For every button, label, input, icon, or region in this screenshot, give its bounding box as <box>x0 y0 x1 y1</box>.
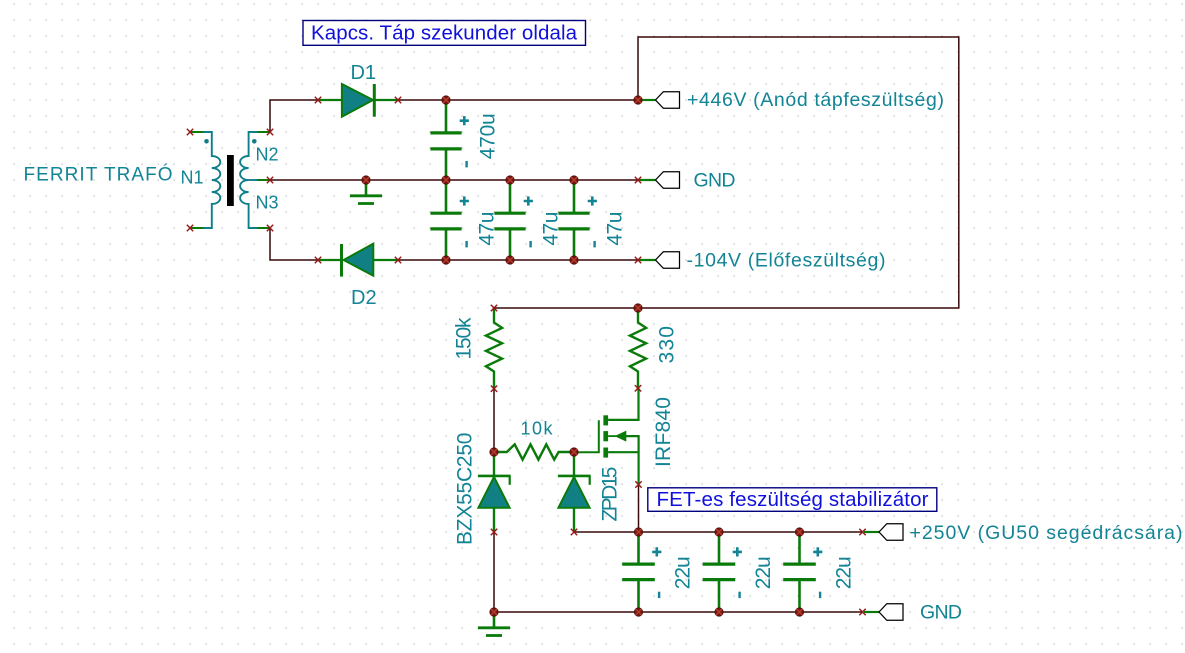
svg-text:+446V (Anód tápfeszültség): +446V (Anód tápfeszültség) <box>687 89 944 111</box>
svg-text:47u: 47u <box>540 212 563 246</box>
svg-text:FERRIT TRAFÓ: FERRIT TRAFÓ <box>24 164 173 186</box>
junction 366,180 <box>362 176 370 184</box>
zener diode Z1 BZX55C250 <box>478 452 511 532</box>
svg-text:N1: N1 <box>181 168 204 188</box>
svg-text:N3: N3 <box>256 193 279 213</box>
pin mark 638.5,484.5 <box>635 481 641 487</box>
wire bottom GND rail <box>494 611 863 613</box>
wire N2 top to D1 anode <box>270 100 318 132</box>
pin mark 190,132 <box>187 129 193 135</box>
wire N3 bottom to D2 cathode <box>270 228 318 260</box>
pin mark 638,388.3 <box>635 385 641 391</box>
svg-text:FET-es feszültség stabilizátor: FET-es feszültség stabilizátor <box>657 488 929 511</box>
stub -104V terminal <box>639 259 656 261</box>
junction 638,308 <box>634 304 642 312</box>
pin mark 270,228 <box>267 225 273 231</box>
pin mark 574,532 <box>571 529 577 535</box>
capacitor C1 470u <box>430 100 469 180</box>
junction 494,452 <box>490 448 498 456</box>
svg-text:GND: GND <box>694 170 736 192</box>
diode D2 <box>318 244 398 277</box>
ground GND rail <box>350 184 382 204</box>
svg-text:47u: 47u <box>476 212 499 246</box>
svg-text:+250V (GU50 segédrácsára): +250V (GU50 segédrácsára) <box>910 522 1183 544</box>
svg-text:Kapcs. Táp szekunder oldala: Kapcs. Táp szekunder oldala <box>311 21 578 44</box>
junction 574,180 <box>570 176 578 184</box>
transformer FERRIT TRAFO <box>191 132 270 228</box>
wire GND rail top <box>270 179 638 181</box>
pin mark 190,228 <box>187 225 193 231</box>
terminal GND <box>656 172 680 189</box>
junction 638,100 <box>634 96 642 104</box>
stub +250V terminal <box>864 531 879 533</box>
resistor R3 10k <box>494 444 574 459</box>
junction 510,180 <box>506 176 514 184</box>
resistor R2 330 <box>630 308 646 388</box>
svg-text:22u: 22u <box>672 556 695 589</box>
svg-text:IRF840: IRF840 <box>652 397 675 467</box>
junction 446,180 <box>442 176 450 184</box>
pin mark 638,260 <box>635 257 641 263</box>
junction 799.5,532 <box>795 528 803 536</box>
wire D2 anode to -104V rail <box>398 259 638 261</box>
pin mark 494,388.7 <box>491 386 497 392</box>
ground bottom <box>478 616 510 636</box>
wire +446V node to regulator rail <box>494 37 959 308</box>
pin mark 862.5,532 <box>859 529 865 535</box>
svg-text:GND: GND <box>920 602 962 624</box>
capacitor C5 22u <box>622 532 661 612</box>
junction 574,260 <box>570 256 578 264</box>
title box 1 <box>303 21 586 46</box>
capacitor C6 22u <box>703 532 742 612</box>
svg-text:D2: D2 <box>351 287 377 309</box>
stub GND bottom terminal <box>864 611 879 613</box>
capacitor C3 47u <box>494 180 533 260</box>
svg-text:47u: 47u <box>604 212 627 246</box>
diode D1 <box>318 84 398 117</box>
capacitor C7 22u <box>783 532 822 612</box>
wire BZX anode to bottom GND rail <box>493 532 495 612</box>
stub +446V terminal <box>641 99 656 101</box>
terminal GND bottom <box>879 604 903 621</box>
junction 494,612 <box>490 608 498 616</box>
title box 2 <box>648 488 937 512</box>
pin mark 270,180 <box>267 177 273 183</box>
pin mark 318,260 <box>315 257 321 263</box>
wire 150k bottom to gate node <box>493 389 495 452</box>
junction 799.5,612 <box>795 608 803 616</box>
pin mark 638,180 <box>635 177 641 183</box>
pin mark 398,260 <box>395 257 401 263</box>
junction 510,260 <box>506 256 514 264</box>
zener diode Z2 ZPD15 <box>558 452 591 532</box>
svg-text:22u: 22u <box>833 556 856 589</box>
resistor R1 150k <box>486 308 502 389</box>
stub GND terminal <box>639 179 656 181</box>
svg-text:-104V (Előfeszültség): -104V (Előfeszültség) <box>687 249 886 271</box>
pin mark 494,532 <box>491 529 497 535</box>
junction 574,452 <box>570 448 578 456</box>
terminal +250V <box>879 524 903 541</box>
transistor Q1 IRF840 <box>574 388 639 484</box>
svg-text:BZX55C250: BZX55C250 <box>454 433 477 546</box>
svg-text:470u: 470u <box>477 113 500 159</box>
junction 719,612 <box>715 608 723 616</box>
wire D1 cathode to +446V node <box>398 99 638 101</box>
svg-text:10k: 10k <box>521 419 554 439</box>
pin mark 318,100 <box>315 97 321 103</box>
pin mark 862.5,612 <box>859 609 865 615</box>
capacitor C2 47u <box>430 180 469 260</box>
svg-text:22u: 22u <box>752 556 775 589</box>
terminal +446V <box>656 92 680 109</box>
svg-text:330: 330 <box>656 326 679 364</box>
pin mark 398,100 <box>395 97 401 103</box>
junction 446,100 <box>442 96 450 104</box>
pin mark 270,132 <box>267 129 273 135</box>
wire +250V rail <box>574 531 863 533</box>
svg-text:D1: D1 <box>351 62 377 84</box>
wire FET source to +250V rail <box>638 485 640 533</box>
pin mark 494,308 <box>491 305 497 311</box>
junction 638.5,532 <box>634 528 642 536</box>
junction 446,260 <box>442 256 450 264</box>
junction 638.5,612 <box>634 608 642 616</box>
junction 719,532 <box>715 528 723 536</box>
terminal -104V <box>656 252 680 269</box>
svg-text:ZPD15: ZPD15 <box>599 467 622 522</box>
svg-text:150k: 150k <box>453 317 476 360</box>
capacitor C4 47u <box>558 180 597 260</box>
svg-text:N2: N2 <box>256 145 279 165</box>
